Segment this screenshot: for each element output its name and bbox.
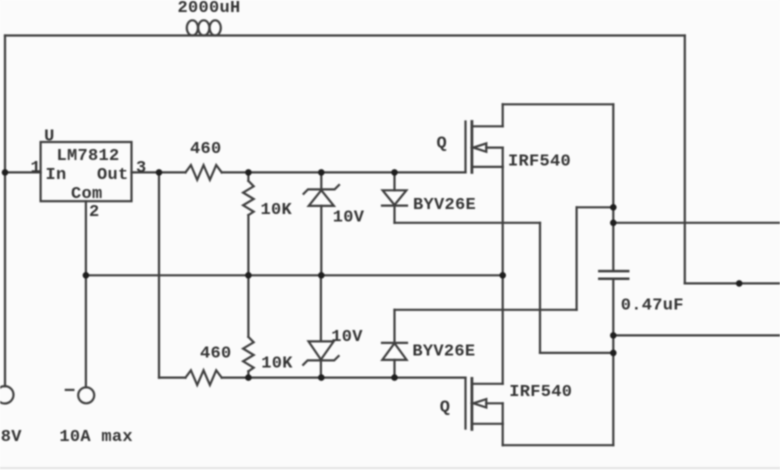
svg-text:10A max: 10A max <box>59 428 133 447</box>
zener D2 10V (lower) <box>320 275 322 341</box>
node lower diode bottom <box>391 374 398 381</box>
svg-text:Com: Com <box>71 185 103 204</box>
wire top rail <box>5 34 685 36</box>
svg-text:460: 460 <box>190 140 222 159</box>
node lower 10K bottom <box>245 374 252 381</box>
svg-text:IRF540: IRF540 <box>508 152 571 171</box>
transistor Q2 source <box>472 423 503 425</box>
svg-text:18V: 18V <box>0 428 22 447</box>
wire input to regulator <box>5 171 41 173</box>
wire regulator com pin 2 <box>85 201 87 387</box>
transistor Q2 drain <box>472 383 503 385</box>
regulator U LM7812 box <box>41 142 132 201</box>
node upper diode top <box>391 169 398 176</box>
svg-text:1: 1 <box>31 159 42 178</box>
node lower zener bottom <box>318 374 325 381</box>
svg-text:10V: 10V <box>333 208 365 227</box>
transistor Q2 IRF540 (lower) gate bar <box>464 378 466 429</box>
svg-text:0.47uF: 0.47uF <box>621 297 684 316</box>
node com rail <box>83 272 90 279</box>
wire left vertical <box>4 36 6 387</box>
svg-text:Out: Out <box>97 166 129 185</box>
svg-text:10V: 10V <box>331 328 363 347</box>
node output upper <box>610 220 617 227</box>
node half bridge <box>499 272 506 279</box>
svg-text:2: 2 <box>89 203 100 222</box>
node mid 10K <box>245 272 252 279</box>
node output lower <box>610 332 617 339</box>
node mid zener <box>318 272 325 279</box>
transistor Q1 channel bar <box>470 122 473 173</box>
diode D4 BYV26E (lower) <box>393 310 395 343</box>
resistor R3 10K (upper) <box>247 172 249 181</box>
wire drain rail top <box>503 103 614 105</box>
wire lower gate rail <box>222 377 466 379</box>
transistor Q1 source <box>472 166 503 168</box>
svg-text:BYV26E: BYV26E <box>413 196 476 215</box>
wire output right upper <box>613 222 780 224</box>
resistor R1 460 (upper) <box>186 165 222 180</box>
wire top right corner down <box>684 36 686 284</box>
inductor L1 2000uH <box>187 20 198 35</box>
svg-text:10K: 10K <box>261 355 293 374</box>
transistor Q1 body arrow <box>473 143 486 151</box>
node output <box>156 169 163 176</box>
wire regulator output <box>132 171 186 173</box>
node upper zener top <box>318 169 325 176</box>
svg-text:IRF540: IRF540 <box>509 383 572 402</box>
minus sign <box>66 389 74 391</box>
svg-text:BYV26E: BYV26E <box>412 342 475 361</box>
wire lower diode to upper node <box>395 309 577 311</box>
wire output right lower <box>613 334 780 336</box>
capacitor C1 0.47uF <box>599 270 628 273</box>
svg-text:Q: Q <box>440 398 451 417</box>
node right rail <box>736 280 743 287</box>
node input <box>2 169 9 176</box>
svg-text:In: In <box>46 166 67 185</box>
node upper 10K top <box>245 169 252 176</box>
diode D3 BYV26E (upper) <box>393 172 395 190</box>
wire cap top to drain rail <box>612 104 614 270</box>
svg-text:10K: 10K <box>261 201 293 220</box>
zener D1 10V (upper) <box>320 172 322 189</box>
wire middle rail <box>86 274 503 276</box>
wire bottom return <box>503 444 614 446</box>
svg-text:460: 460 <box>200 345 232 364</box>
wire upper diode to midpoint <box>395 222 541 224</box>
svg-text:2000uH: 2000uH <box>178 0 241 18</box>
wire upper gate rail <box>222 171 466 173</box>
transistor Q2 channel bar <box>470 378 473 429</box>
svg-text:Q: Q <box>437 135 448 154</box>
wire output node down <box>158 172 160 377</box>
resistor R2 460 (lower) <box>186 370 222 385</box>
svg-text:3: 3 <box>136 159 147 178</box>
wire lower rail left <box>159 377 186 379</box>
transistor Q2 body arrow <box>473 399 486 407</box>
page divider line <box>0 467 780 469</box>
node midpoint lower <box>610 350 617 357</box>
node drain rail tap <box>610 204 617 211</box>
resistor R4 10K (lower) <box>247 275 249 337</box>
transistor Q1 IRF540 (upper) gate bar <box>464 122 466 173</box>
terminal -10A <box>78 387 94 403</box>
svg-text:LM7812: LM7812 <box>57 147 120 166</box>
svg-text:U: U <box>44 127 55 146</box>
transistor Q1 drain <box>472 125 503 127</box>
terminal +18V <box>0 386 14 403</box>
